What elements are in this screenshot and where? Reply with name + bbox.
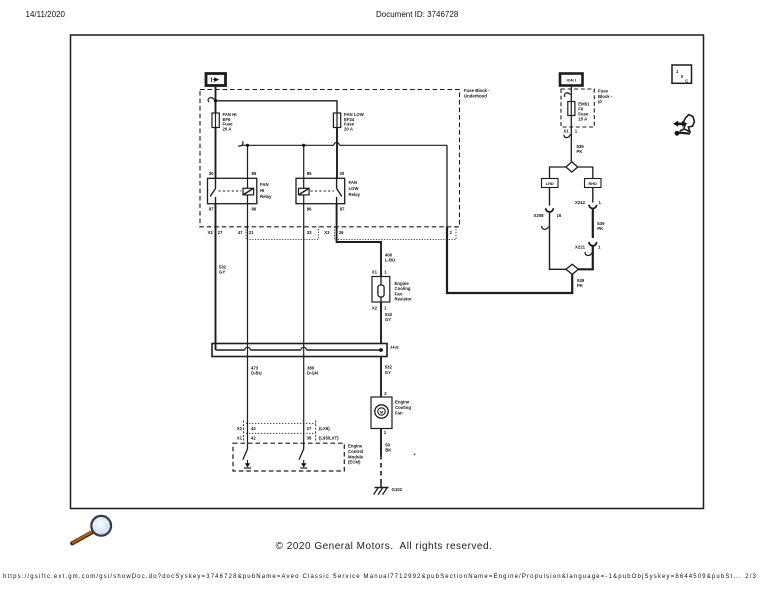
svg-text:X1: X1 bbox=[563, 128, 569, 133]
svg-text:Resistor: Resistor bbox=[395, 297, 413, 302]
svg-text:Engine: Engine bbox=[395, 400, 410, 405]
wire 539 PK riser into fuse block bbox=[446, 145, 448, 227]
connector dotted box right group bbox=[335, 227, 457, 240]
svg-text:J432: J432 bbox=[390, 344, 400, 349]
svg-text:D-GN: D-GN bbox=[307, 371, 318, 376]
svg-text:20 A: 20 A bbox=[223, 126, 232, 131]
svg-text:86: 86 bbox=[252, 206, 257, 211]
svg-text:1: 1 bbox=[575, 128, 578, 133]
header document id bbox=[376, 10, 458, 19]
svg-text:38: 38 bbox=[307, 436, 312, 441]
svg-text:X2: X2 bbox=[372, 305, 378, 310]
svg-text:1: 1 bbox=[384, 269, 387, 274]
svg-text:30: 30 bbox=[340, 171, 345, 176]
svg-text:Cooling: Cooling bbox=[395, 405, 411, 410]
svg-text:(LX9): (LX9) bbox=[319, 426, 330, 431]
svg-text:Fan: Fan bbox=[395, 291, 403, 296]
wire 473 D-BU relay FAN HI 86 to ECM bbox=[247, 204, 249, 444]
resistor engine cooling fan resistor bbox=[372, 277, 390, 303]
wire FAN LOW fuse to relay 30 bbox=[336, 128, 338, 179]
svg-text:21: 21 bbox=[249, 230, 254, 235]
header date bbox=[26, 10, 65, 19]
svg-text:FAN: FAN bbox=[349, 180, 358, 185]
svg-text:GY: GY bbox=[385, 317, 391, 322]
svg-text:539: 539 bbox=[577, 278, 585, 283]
magnifier icon bbox=[72, 516, 111, 543]
fuse FAN LOW EF24 bbox=[333, 113, 340, 128]
wire X221 to diamond bbox=[578, 246, 592, 269]
wire RHD branch top bbox=[578, 167, 593, 179]
wire 532 GY relay FAN HI 87 to splice bbox=[215, 204, 217, 350]
wire fuse F6 to X1 pin 1 bbox=[570, 116, 572, 162]
fuse block IP boundary bbox=[561, 89, 594, 127]
svg-text:X3: X3 bbox=[324, 230, 330, 235]
svg-text:Relay: Relay bbox=[260, 194, 272, 199]
svg-text:1: 1 bbox=[676, 69, 679, 74]
junction dot battery feed bbox=[214, 99, 217, 102]
footer url bbox=[3, 574, 765, 580]
svg-text:532: 532 bbox=[219, 264, 227, 269]
svg-text:IGN I: IGN I bbox=[567, 78, 576, 83]
svg-text:Fuse Block -: Fuse Block - bbox=[464, 88, 490, 93]
svg-text:PK: PK bbox=[597, 226, 604, 231]
svg-text:27: 27 bbox=[218, 230, 223, 235]
ECM connector variant row 1 bbox=[246, 422, 316, 424]
connector curl below IP fuse block bbox=[564, 134, 570, 137]
svg-text:87: 87 bbox=[209, 206, 214, 211]
svg-text:Engine: Engine bbox=[395, 281, 410, 286]
splice bar J432 bbox=[212, 344, 387, 357]
ECM low side driver FAN LOW relay bbox=[299, 443, 307, 468]
junction dot FAN LOW relay coil bbox=[302, 144, 305, 147]
relay FAN HI bbox=[208, 178, 257, 203]
svg-text:Block -: Block - bbox=[598, 94, 613, 99]
svg-text:16: 16 bbox=[557, 213, 562, 218]
svg-text:26: 26 bbox=[339, 230, 344, 235]
IGN I feed box bbox=[560, 74, 583, 86]
legend cell box bbox=[672, 65, 692, 83]
svg-text:20 A: 20 A bbox=[344, 126, 353, 131]
wire battery feed bbox=[215, 86, 217, 114]
svg-text:X208: X208 bbox=[533, 213, 544, 218]
svg-text:400: 400 bbox=[385, 252, 393, 257]
svg-text:87: 87 bbox=[340, 206, 345, 211]
svg-text:Module: Module bbox=[348, 454, 364, 459]
svg-text:Fuse: Fuse bbox=[598, 89, 609, 94]
wire FAN HI fuse to relay 30 bbox=[215, 128, 217, 179]
svg-text:86: 86 bbox=[307, 206, 312, 211]
connector curl X221 bbox=[585, 252, 592, 255]
ECM low side driver FAN HI relay bbox=[243, 443, 251, 468]
svg-text:X1: X1 bbox=[372, 269, 378, 274]
wire coil feed FAN LOW relay bbox=[303, 145, 305, 178]
ignition feed wire to relay coils bbox=[242, 144, 447, 146]
ECM connector variant row 2 bbox=[246, 432, 316, 434]
wire 532 GY resistor to splice bbox=[380, 302, 382, 344]
svg-text:Cooling: Cooling bbox=[395, 286, 411, 291]
ECM connector bracket left bbox=[243, 421, 245, 442]
svg-text:X2: X2 bbox=[237, 426, 243, 431]
svg-text:27: 27 bbox=[307, 426, 312, 431]
svg-text:X221: X221 bbox=[575, 244, 586, 249]
connector X208 bbox=[546, 208, 554, 212]
svg-text:D-BU: D-BU bbox=[251, 371, 262, 376]
schematic outer frame bbox=[71, 35, 704, 509]
svg-text:50: 50 bbox=[385, 442, 390, 447]
svg-text:X2: X2 bbox=[208, 230, 214, 235]
svg-text:C: C bbox=[685, 78, 688, 83]
svg-text:LHD: LHD bbox=[546, 181, 554, 186]
stray ink speck bbox=[414, 454, 416, 456]
svg-text:1: 1 bbox=[384, 305, 387, 310]
svg-text:33: 33 bbox=[307, 230, 312, 235]
wire to FAN LOW fuse bbox=[216, 101, 338, 113]
svg-text:473: 473 bbox=[251, 365, 259, 370]
svg-text:47: 47 bbox=[238, 230, 243, 235]
svg-text:BK: BK bbox=[385, 448, 392, 453]
wire 400 L-BU relay FAN LOW 87 to resistor bbox=[337, 204, 381, 277]
svg-text:(ECM): (ECM) bbox=[348, 460, 361, 465]
svg-text:532: 532 bbox=[385, 365, 393, 370]
option diamond top bbox=[566, 162, 578, 172]
svg-text:85: 85 bbox=[307, 171, 312, 176]
svg-text:1: 1 bbox=[384, 430, 387, 435]
wire hop over FAN LOW fuse wire bbox=[334, 143, 340, 146]
option diamond bottom bbox=[566, 264, 578, 274]
svg-text:RHD: RHD bbox=[588, 181, 597, 186]
navigation arrows icon bbox=[673, 115, 694, 136]
svg-text:Fan: Fan bbox=[395, 410, 403, 415]
svg-text:(L95/LXT): (L95/LXT) bbox=[319, 436, 339, 441]
svg-text:FAN: FAN bbox=[260, 182, 269, 187]
svg-text:380: 380 bbox=[307, 365, 315, 370]
LHD option box bbox=[542, 179, 559, 188]
svg-text:HI: HI bbox=[260, 188, 264, 193]
svg-text:X212: X212 bbox=[575, 200, 586, 205]
wire LHD to connector X208 bbox=[549, 188, 551, 206]
svg-text:M: M bbox=[380, 409, 384, 414]
svg-text:Relay: Relay bbox=[349, 192, 361, 197]
svg-text:GY: GY bbox=[219, 270, 225, 275]
ground G102 bbox=[374, 483, 389, 495]
fuse EM51 F6 15A bbox=[568, 102, 575, 116]
wire 539 PK return to fuse block bbox=[447, 227, 572, 293]
connector curl X208 bbox=[542, 226, 549, 229]
svg-text:X1: X1 bbox=[237, 436, 243, 441]
svg-text:532: 532 bbox=[385, 312, 393, 317]
svg-text:30: 30 bbox=[209, 171, 214, 176]
ECM boundary bbox=[233, 443, 344, 471]
svg-text:2: 2 bbox=[384, 391, 387, 396]
svg-text:Engine: Engine bbox=[348, 444, 363, 449]
fuse block underhood boundary bbox=[200, 90, 460, 227]
svg-text:L-BU: L-BU bbox=[385, 258, 395, 263]
ECM connector bracket right bbox=[315, 421, 317, 442]
wire 380 D-GN relay FAN LOW 86 to ECM bbox=[303, 204, 305, 444]
connector dotted box X3 group bbox=[246, 227, 319, 240]
connector X221 bbox=[589, 242, 597, 246]
svg-text:IP: IP bbox=[598, 100, 602, 105]
wire LHD below connector bbox=[550, 212, 567, 269]
svg-text:Underhood: Underhood bbox=[464, 94, 487, 99]
svg-text:2: 2 bbox=[450, 230, 453, 235]
connector curl at battery feed junction bbox=[208, 98, 214, 102]
svg-text:1: 1 bbox=[598, 244, 601, 249]
connector curl in IP fuse block bbox=[564, 93, 570, 97]
dashed wire to ground G102 bbox=[380, 455, 382, 483]
fuse FAN HI EF6 bbox=[212, 113, 219, 128]
svg-text:15 A: 15 A bbox=[578, 116, 587, 121]
battery feed symbol B+ bbox=[206, 74, 226, 86]
wire coil feed FAN HI relay bbox=[247, 145, 249, 178]
svg-text:PK: PK bbox=[577, 149, 584, 154]
svg-text:0: 0 bbox=[681, 74, 684, 79]
schematic text labels bbox=[208, 69, 689, 492]
svg-text:539: 539 bbox=[597, 221, 605, 226]
wire 532 GY splice to fan bbox=[380, 357, 382, 398]
svg-text:42: 42 bbox=[251, 436, 256, 441]
footer copyright bbox=[0, 541, 768, 552]
svg-text:85: 85 bbox=[252, 171, 257, 176]
svg-text:1: 1 bbox=[599, 200, 602, 205]
wire 539 PK RHD bbox=[592, 209, 594, 239]
wire LHD branch top bbox=[550, 167, 566, 179]
junction dot FAN HI relay coil bbox=[246, 144, 249, 147]
connector curl at ignition feed end bbox=[238, 141, 243, 146]
connector X212 bbox=[589, 205, 597, 209]
svg-text:Control: Control bbox=[348, 449, 363, 454]
wire 50 BK fan to ground bbox=[380, 429, 382, 456]
svg-text:PK: PK bbox=[577, 283, 584, 288]
relay FAN LOW bbox=[296, 178, 345, 203]
wire RHD to connector X212 bbox=[592, 188, 594, 203]
wire IGN feed bbox=[570, 86, 572, 102]
svg-text:42: 42 bbox=[251, 426, 256, 431]
motor engine cooling fan bbox=[371, 397, 392, 429]
svg-text:LOW: LOW bbox=[349, 186, 360, 191]
svg-text:G102: G102 bbox=[392, 487, 403, 492]
svg-text:GY: GY bbox=[385, 370, 391, 375]
RHD option box bbox=[585, 179, 602, 188]
svg-text:539: 539 bbox=[577, 144, 585, 149]
